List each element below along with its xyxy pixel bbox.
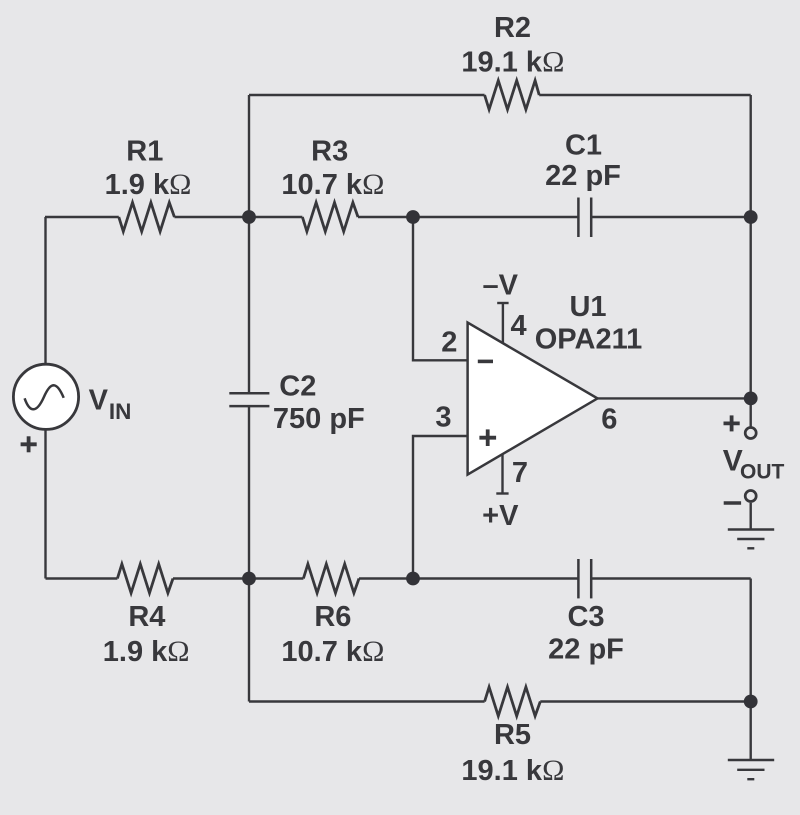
ground at VOUT xyxy=(728,530,774,549)
wire row C left segment xyxy=(46,577,118,579)
resistor R4 xyxy=(117,564,173,593)
capacitor C2 xyxy=(229,393,269,406)
junction node C2b xyxy=(406,572,420,586)
resistor R6 xyxy=(303,564,359,593)
svg-text:C1: C1 xyxy=(565,129,602,161)
resistor R1 xyxy=(119,203,175,232)
wire right vertical x=750.7 xyxy=(750,95,752,398)
svg-text:R4: R4 xyxy=(128,601,165,633)
terminal - circle xyxy=(745,491,756,502)
svg-text:R2: R2 xyxy=(494,12,531,44)
svg-text:19.1 kΩ: 19.1 kΩ xyxy=(461,754,564,787)
svg-text:IN: IN xyxy=(109,399,131,424)
resistor R5 xyxy=(485,687,541,716)
wire vertical x=249 top xyxy=(248,95,250,217)
svg-text:C3: C3 xyxy=(567,601,604,633)
terminal + circle xyxy=(745,428,756,439)
wire inverting input: vertical from node B2 and horizontal to op-amp xyxy=(413,217,467,360)
ground bottom right xyxy=(728,760,774,779)
junction node C1 xyxy=(242,572,256,586)
plus sign at VIN xyxy=(21,442,37,446)
wire output to + terminal xyxy=(750,398,752,427)
wire VIN top leg xyxy=(44,217,46,363)
wire C1 to right vertical xyxy=(591,216,751,218)
junction node output xyxy=(744,392,758,406)
svg-text:2: 2 xyxy=(441,327,457,359)
wire row A top: node R2 left to right vertical xyxy=(249,94,485,96)
svg-text:R6: R6 xyxy=(314,601,351,633)
svg-text:1.9 kΩ: 1.9 kΩ xyxy=(103,635,190,668)
resistor R2 xyxy=(485,81,540,110)
svg-text:10.7 kΩ: 10.7 kΩ xyxy=(281,168,384,201)
svg-text:10.7 kΩ: 10.7 kΩ xyxy=(281,635,384,668)
pin 4 stub and -V T-bar xyxy=(502,303,504,344)
svg-text:750 pF: 750 pF xyxy=(273,403,365,435)
svg-text:OUT: OUT xyxy=(740,460,785,483)
svg-text:+V: +V xyxy=(482,500,519,532)
junction node D xyxy=(744,695,758,709)
wire R1 to R3 xyxy=(174,216,302,218)
junction node B3 xyxy=(744,210,758,224)
plus sign at VOUT xyxy=(724,421,740,425)
wire vertical x=249 bottom xyxy=(248,579,250,702)
wire vertical x=249 middle lower xyxy=(248,406,250,578)
resistor R3 xyxy=(302,203,358,232)
wire row D left xyxy=(249,700,485,702)
svg-text:R5: R5 xyxy=(494,719,531,751)
svg-text:3: 3 xyxy=(435,402,451,434)
svg-text:7: 7 xyxy=(512,457,528,489)
wire right vertical lower xyxy=(750,579,752,702)
wire op-amp output xyxy=(598,397,751,399)
svg-text:U1: U1 xyxy=(569,291,606,323)
wire vertical x=249 middle upper xyxy=(248,217,250,393)
plus sign inside op-amp xyxy=(479,436,496,440)
wire row B left segment xyxy=(45,216,119,218)
svg-text:C2: C2 xyxy=(279,371,316,403)
wire R6 to C3 xyxy=(359,577,578,579)
svg-text:R1: R1 xyxy=(126,136,163,168)
wire R3 to C1 xyxy=(358,216,578,218)
minus sign inside op-amp xyxy=(478,360,493,364)
svg-text:R3: R3 xyxy=(311,136,348,168)
pin 7 stub and +V T-bar xyxy=(501,455,503,494)
svg-text:OPA211: OPA211 xyxy=(535,324,642,356)
wire non-inverting input: vertical from node C2 and horizontal to op-amp xyxy=(413,436,467,579)
source VIN circle xyxy=(13,364,78,429)
wire - terminal to ground xyxy=(750,503,752,530)
capacitor C3 xyxy=(578,559,591,598)
wire VIN bottom leg xyxy=(44,430,46,578)
svg-text:–V: –V xyxy=(483,269,519,301)
VIN sine wave xyxy=(25,385,64,409)
wire R4 to R6 xyxy=(173,577,303,579)
junction node B1 xyxy=(242,210,256,224)
svg-text:V: V xyxy=(89,384,109,416)
capacitor C1 xyxy=(578,198,591,238)
svg-text:22 pF: 22 pF xyxy=(548,634,624,666)
minus sign at VOUT xyxy=(724,501,741,505)
wire C3 to right xyxy=(591,577,751,579)
svg-text:4: 4 xyxy=(511,310,527,342)
svg-text:1.9 kΩ: 1.9 kΩ xyxy=(105,168,192,201)
wire bottom-right ground stem xyxy=(750,702,752,761)
wire R5 to right xyxy=(540,700,750,702)
svg-text:22 pF: 22 pF xyxy=(545,160,621,192)
svg-text:19.1 kΩ: 19.1 kΩ xyxy=(461,46,564,79)
svg-text:6: 6 xyxy=(601,404,617,436)
op-amp U1 triangle xyxy=(468,323,598,475)
junction node B2 xyxy=(406,210,420,224)
